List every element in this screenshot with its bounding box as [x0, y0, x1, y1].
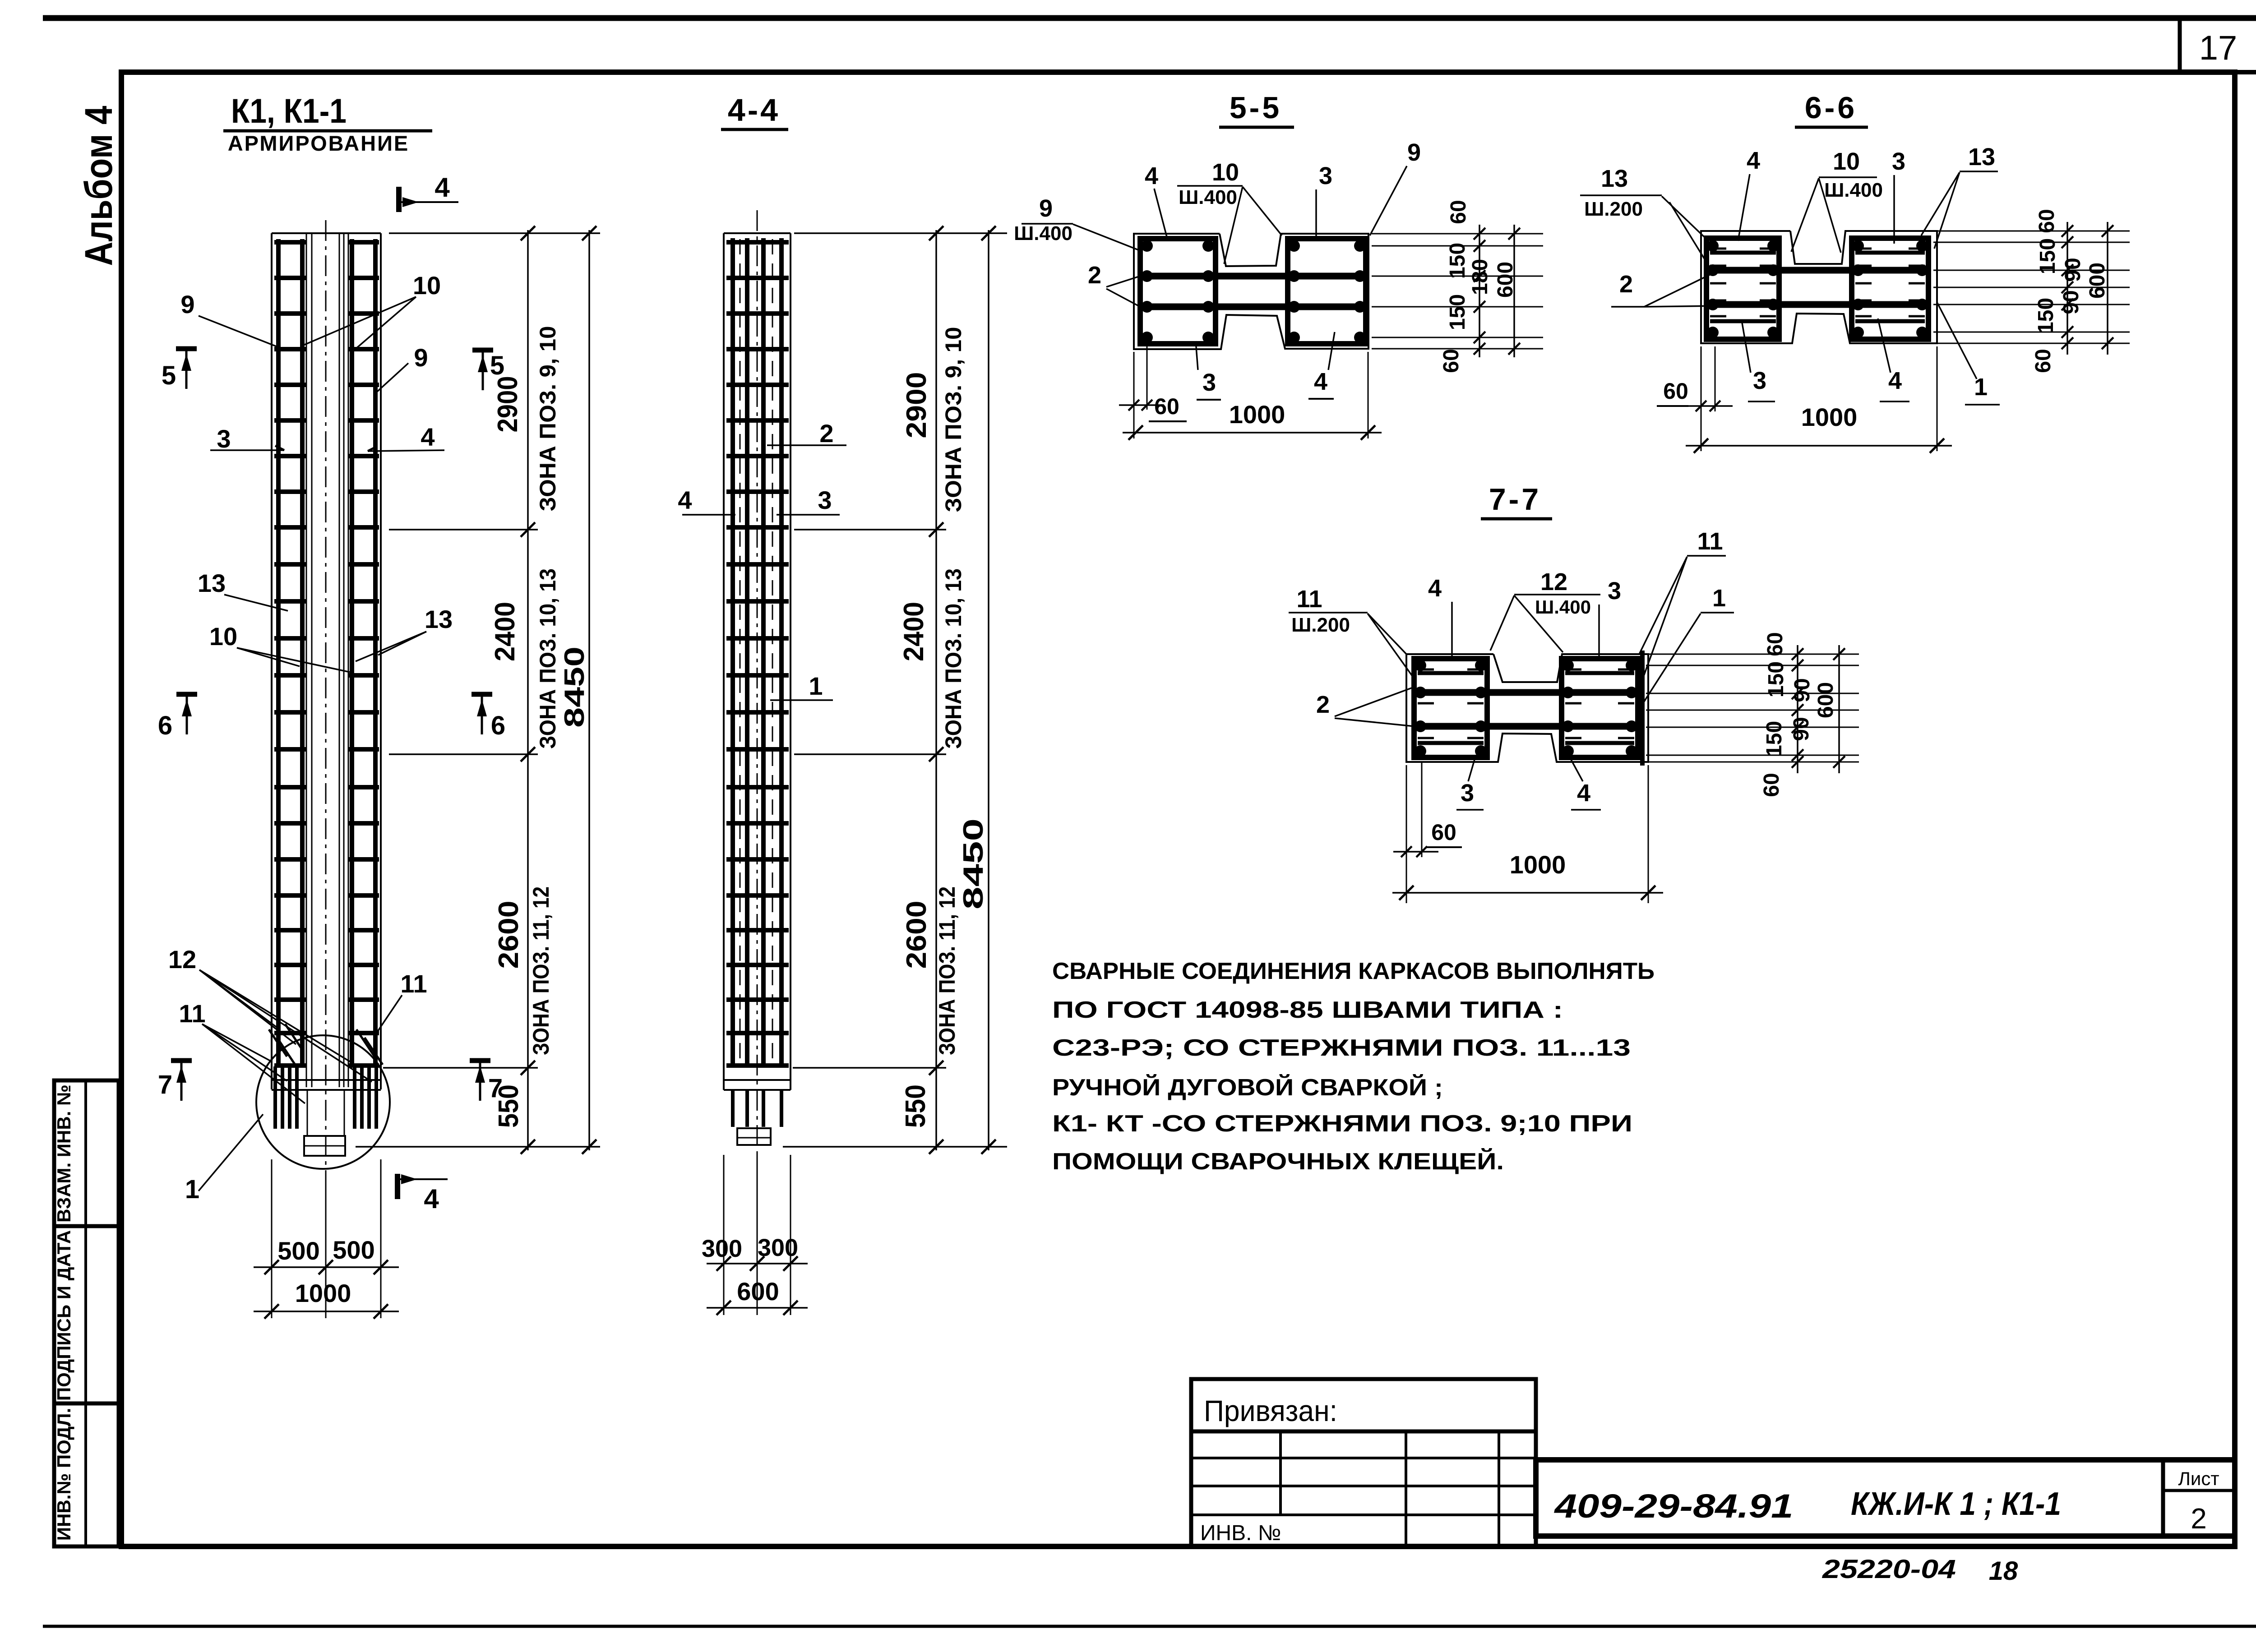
section 5-5 right stirrup: [1288, 239, 1366, 344]
svg-text:5: 5: [490, 351, 504, 380]
zone dimension line 4-4: [935, 230, 937, 1150]
svg-text:18: 18: [1989, 1556, 2018, 1586]
svg-text:1: 1: [1712, 585, 1726, 612]
svg-text:150: 150: [2034, 298, 2058, 334]
zone dimension line K1: [527, 230, 529, 1150]
svg-text:1000: 1000: [1229, 400, 1285, 429]
section marker 6 right: [481, 695, 483, 734]
svg-text:9: 9: [180, 290, 194, 318]
svg-text:12: 12: [168, 945, 196, 974]
section 6-6 dim 1000: [1937, 346, 1938, 451]
svg-text:2900: 2900: [901, 372, 932, 438]
svg-text:9: 9: [414, 343, 428, 372]
svg-text:Ш.400: Ш.400: [1014, 222, 1073, 245]
svg-text:ЗОНА ПОЗ. 10, 13: ЗОНА ПОЗ. 10, 13: [535, 568, 560, 749]
column 4-4 dashed inner bars: [740, 239, 741, 1066]
svg-text:6-6: 6-6: [1805, 91, 1857, 125]
svg-text:3: 3: [1461, 780, 1474, 807]
section 7-7 rebar dots left stirrup: [1415, 660, 1426, 671]
bottom extension lines K1: [271, 1159, 273, 1318]
svg-text:3: 3: [1753, 367, 1766, 394]
svg-text:6: 6: [491, 711, 505, 740]
column K1 elevation outline: [272, 232, 381, 234]
section 6-6 rebar dots right stirrup: [1852, 240, 1864, 252]
svg-text:ИНВ. №: ИНВ. №: [1200, 1521, 1281, 1545]
column 4-4 longitudinal bars: [730, 238, 735, 1066]
section 7-7 left stirrup: [1414, 659, 1487, 757]
section marker 5 right: [482, 351, 484, 390]
section 7-7 dim 60 bottom left: [1406, 765, 1407, 903]
svg-text:60: 60: [2031, 349, 2055, 373]
section marker 6 left: [186, 695, 188, 734]
svg-text:60: 60: [1447, 200, 1470, 224]
svg-text:550: 550: [900, 1084, 931, 1128]
svg-text:ПОМОЩИ СВАРОЧНЫХ КЛЕЩЕЙ.: ПОМОЩИ СВАРОЧНЫХ КЛЕЩЕЙ.: [1052, 1148, 1504, 1175]
svg-text:60: 60: [1763, 632, 1787, 656]
section 6-6 left stirrup: [1706, 238, 1779, 339]
svg-text:2900: 2900: [492, 376, 523, 433]
extension line zone3/550: [383, 1067, 538, 1069]
svg-text:550: 550: [493, 1084, 524, 1128]
weld tick marks in detail zone: [269, 1029, 287, 1057]
extension zone2/3 4-4: [794, 753, 946, 755]
svg-text:90: 90: [2061, 258, 2085, 281]
svg-text:ЗОНА ПОЗ. 9, 10: ЗОНА ПОЗ. 9, 10: [535, 326, 560, 512]
section 5-5 rebar dots right stirrup: [1288, 240, 1300, 252]
section 5-5 bars poz.2: [1140, 273, 1366, 280]
svg-text:90: 90: [2059, 290, 2083, 314]
section 5-5 extension lines right: [1372, 233, 1543, 235]
extension line zone2/3: [389, 753, 538, 755]
svg-text:2: 2: [2191, 1502, 2207, 1535]
extension line column K1 bottom: [356, 1146, 600, 1148]
svg-text:ЗОНА ПОЗ. 10, 13: ЗОНА ПОЗ. 10, 13: [941, 568, 966, 749]
svg-text:ПО ГОСТ 14098-85 ШВАМИ ТИПА :: ПО ГОСТ 14098-85 ШВАМИ ТИПА :: [1052, 997, 1563, 1023]
sheet outer top border line: [43, 15, 2256, 21]
svg-text:10: 10: [413, 271, 441, 300]
svg-text:600: 600: [737, 1277, 779, 1306]
svg-text:4: 4: [678, 486, 692, 514]
svg-text:ЗОНА ПОЗ. 9, 10: ЗОНА ПОЗ. 9, 10: [941, 327, 966, 512]
svg-text:1000: 1000: [1801, 403, 1858, 431]
rebar cage left ladder rungs: [274, 240, 306, 245]
svg-text:6: 6: [158, 711, 172, 740]
column 4-4 protruding bars: [731, 1090, 735, 1127]
column K1 foot plate: [304, 1136, 345, 1156]
svg-text:13: 13: [1601, 165, 1628, 192]
extension zone3/550 4-4: [793, 1067, 946, 1069]
svg-text:Ш.400: Ш.400: [1535, 596, 1591, 618]
svg-text:4: 4: [1747, 147, 1760, 174]
svg-text:РУЧНОЙ ДУГОВОЙ СВАРКОЙ ;: РУЧНОЙ ДУГОВОЙ СВАРКОЙ ;: [1052, 1074, 1443, 1101]
section 6-6 bars poz.2: [1706, 267, 1928, 274]
svg-text:10: 10: [1833, 148, 1860, 175]
svg-text:150: 150: [1762, 721, 1786, 757]
svg-text:4: 4: [424, 1184, 439, 1214]
svg-text:60: 60: [1663, 378, 1688, 404]
svg-text:300: 300: [702, 1235, 742, 1262]
svg-text:2: 2: [1619, 271, 1633, 298]
extension line top K1: [389, 232, 600, 234]
dim line 500/500: [254, 1266, 399, 1268]
section 7-7 dim 600: [1838, 645, 1840, 773]
section 6-6 dim 60 bottom left: [1701, 346, 1702, 451]
section 5-5 dim 600: [1513, 225, 1515, 357]
section 6-6 right stirrup: [1852, 238, 1928, 339]
svg-text:1000: 1000: [295, 1279, 351, 1307]
svg-text:25220-04: 25220-04: [1822, 1555, 1956, 1584]
section 6-6 hook dashes: [1760, 248, 1776, 250]
protruding bars bottom left: [273, 1066, 277, 1129]
svg-text:3: 3: [818, 486, 832, 514]
column 4-4 foot plate: [737, 1128, 771, 1145]
svg-text:13: 13: [1968, 143, 1995, 171]
svg-text:8450: 8450: [958, 818, 989, 909]
svg-text:60: 60: [1760, 773, 1784, 797]
svg-text:11: 11: [400, 969, 427, 998]
svg-text:2: 2: [1088, 262, 1101, 289]
svg-text:СВАРНЫЕ СОЕДИНЕНИЯ КАРКАСОВ: СВАРНЫЕ СОЕДИНЕНИЯ КАРКАСОВ ВЫПОЛНЯТЬ: [1052, 958, 1655, 984]
svg-text:1: 1: [809, 672, 823, 700]
svg-text:7-7: 7-7: [1489, 482, 1541, 517]
svg-text:3: 3: [1319, 162, 1332, 189]
svg-text:Альбом 4: Альбом 4: [77, 106, 120, 266]
svg-text:4: 4: [1577, 780, 1590, 807]
column K1 inner face lines: [306, 233, 307, 1087]
section 5-5 dim 60 bottom left: [1133, 352, 1135, 438]
svg-text:К1, К1-1: К1, К1-1: [231, 92, 347, 130]
svg-text:150: 150: [1446, 243, 1470, 279]
column 4-4 centerline: [757, 210, 758, 1173]
svg-text:ЗОНА ПОЗ. 11, 12: ЗОНА ПОЗ. 11, 12: [934, 886, 960, 1055]
svg-text:4: 4: [1428, 575, 1442, 602]
svg-text:150: 150: [1764, 661, 1788, 697]
svg-text:11: 11: [1296, 586, 1322, 613]
extension line zone1/2: [389, 529, 538, 531]
column 4-4 outline: [724, 232, 791, 234]
svg-text:2: 2: [1316, 691, 1330, 718]
privyazan table: [1191, 1431, 1536, 1546]
svg-text:ВЗАМ. ИНВ. №: ВЗАМ. ИНВ. №: [53, 1084, 74, 1223]
section 7-7 extension lines right: [1646, 654, 1859, 655]
svg-text:Ш.200: Ш.200: [1584, 198, 1643, 220]
svg-text:600: 600: [1493, 262, 1517, 298]
svg-text:2600: 2600: [493, 901, 524, 969]
svg-text:4: 4: [421, 423, 435, 451]
svg-text:К1- КТ -СО СТЕРЖНЯМИ ПОЗ. 9;1: К1- КТ -СО СТЕРЖНЯМИ ПОЗ. 9;10 ПРИ: [1052, 1111, 1632, 1137]
section 6-6 rebar dots left stirrup: [1707, 240, 1719, 252]
extension top 4-4: [794, 232, 1007, 234]
svg-text:Привязан:: Привязан:: [1204, 1394, 1337, 1427]
section marker 5 left: [185, 349, 188, 389]
dim line 300/300: [707, 1263, 808, 1264]
svg-text:600: 600: [1814, 682, 1838, 718]
section 6-6 concrete outline: [1701, 231, 1937, 343]
column 4-4 rungs: [726, 240, 789, 245]
privyazan box: [1191, 1379, 1536, 1431]
protruding bars bottom right: [353, 1066, 356, 1129]
section 7-7 bar poz.1 right: [1640, 651, 1645, 766]
section 6-6 dim chain 60/150/90/90/150/60: [2066, 222, 2068, 355]
svg-text:1: 1: [185, 1175, 199, 1204]
svg-text:С23-РЭ; СО СТЕРЖНЯМИ ПОЗ. 11.: С23-РЭ; СО СТЕРЖНЯМИ ПОЗ. 11...13: [1052, 1035, 1631, 1061]
extension zone1/2 4-4: [794, 529, 946, 531]
svg-text:11: 11: [1697, 528, 1723, 555]
svg-text:ЗОНА ПОЗ. 11, 12: ЗОНА ПОЗ. 11, 12: [528, 886, 554, 1055]
section 7-7 inner bars: [1418, 671, 1484, 675]
section marker 4 top: [396, 187, 402, 212]
svg-text:3: 3: [217, 425, 231, 453]
svg-text:3: 3: [1202, 369, 1216, 396]
section 5-5 concrete outline: [1134, 234, 1368, 349]
column 4-4 bottom band: [724, 1079, 791, 1081]
extension bottom 4-4: [783, 1146, 1007, 1148]
svg-text:3: 3: [1892, 148, 1905, 175]
rebar cage left ladder rails: [276, 239, 281, 1066]
section 7-7 concrete outline: [1406, 654, 1648, 762]
page number box: [2178, 18, 2182, 72]
svg-text:КЖ.И-К 1 ; К1-1: КЖ.И-К 1 ; К1-1: [1851, 1486, 2061, 1522]
svg-text:90: 90: [1790, 678, 1814, 702]
svg-text:Лист: Лист: [2178, 1468, 2219, 1489]
svg-text:4-4: 4-4: [728, 92, 780, 128]
section marker 4 bottom: [395, 1174, 400, 1199]
sheet outer bottom border line: [43, 1625, 2256, 1628]
svg-text:13: 13: [425, 605, 453, 633]
overall dimension line 8450 4-4: [988, 230, 989, 1150]
svg-text:3: 3: [1608, 577, 1621, 605]
list box: [2161, 1460, 2165, 1536]
section marker 7 right: [479, 1061, 481, 1101]
svg-text:2: 2: [819, 419, 833, 448]
svg-text:150: 150: [2036, 238, 2060, 274]
svg-text:Ш.400: Ш.400: [1179, 186, 1237, 208]
section 7-7 bars poz.2: [1414, 689, 1638, 696]
svg-text:ПОДПИСЬ И ДАТА: ПОДПИСЬ И ДАТА: [53, 1230, 74, 1401]
section 6-6 inner bars: [1710, 251, 1776, 255]
section 5-5 left stirrup: [1140, 239, 1216, 344]
svg-text:2600: 2600: [901, 901, 932, 969]
svg-text:2400: 2400: [898, 602, 929, 661]
section 5-5 dim chain 60/150/180/150/60: [1479, 225, 1480, 357]
section 7-7 dim chain 60/150/90/90/150/60: [1797, 645, 1798, 773]
section 7-7 hook dashes: [1418, 669, 1434, 671]
svg-text:90: 90: [1789, 717, 1813, 741]
svg-text:500: 500: [277, 1237, 319, 1265]
svg-text:4: 4: [1314, 368, 1327, 395]
svg-text:10: 10: [1212, 159, 1239, 186]
svg-text:1000: 1000: [1510, 850, 1566, 879]
svg-text:13: 13: [198, 569, 226, 597]
svg-text:2400: 2400: [490, 602, 521, 661]
section 5-5 rebar dots left stirrup: [1141, 240, 1153, 252]
section 7-7 rebar dots right stirrup: [1562, 660, 1574, 671]
svg-text:600: 600: [2085, 263, 2109, 299]
svg-text:Ш.400: Ш.400: [1824, 179, 1883, 201]
svg-text:17: 17: [2199, 29, 2238, 67]
svg-text:5: 5: [162, 361, 176, 390]
svg-text:9: 9: [1039, 195, 1053, 222]
svg-text:409-29-84.91: 409-29-84.91: [1553, 1487, 1793, 1525]
dim line 1000 K1: [254, 1311, 399, 1312]
rebar cage right ladder rungs: [348, 240, 379, 245]
bottom extensions 4-4: [723, 1155, 725, 1315]
svg-text:11: 11: [179, 999, 205, 1028]
svg-text:ИНВ.№ ПОДЛ.: ИНВ.№ ПОДЛ.: [53, 1408, 74, 1541]
svg-text:4: 4: [435, 172, 450, 203]
svg-text:10: 10: [209, 622, 237, 651]
section marker 7 left: [180, 1061, 183, 1101]
svg-text:5-5: 5-5: [1230, 91, 1282, 125]
svg-text:8450: 8450: [559, 646, 590, 728]
rebar cage right ladder rails: [350, 239, 354, 1066]
svg-text:12: 12: [1540, 568, 1567, 595]
section 6-6 extension lines right: [1933, 231, 2130, 232]
svg-text:60: 60: [2035, 209, 2059, 233]
detail circle: [256, 1035, 390, 1169]
svg-text:150: 150: [1446, 294, 1470, 330]
overall dimension line 8450 K1: [588, 230, 590, 1150]
svg-text:4: 4: [1145, 162, 1158, 189]
svg-text:500: 500: [333, 1236, 374, 1264]
section 5-5 dim 1000: [1368, 352, 1369, 438]
svg-text:60: 60: [1439, 349, 1463, 373]
svg-text:Ш.200: Ш.200: [1291, 614, 1350, 636]
svg-text:АРМИРОВАНИЕ: АРМИРОВАНИЕ: [228, 131, 410, 155]
title underline: [223, 129, 432, 133]
column K1 core lines to foot: [307, 1090, 308, 1136]
svg-text:60: 60: [1154, 394, 1179, 419]
svg-text:180: 180: [1468, 259, 1492, 295]
section 7-7 dim 1000: [1648, 765, 1649, 903]
section 7-7 right stirrup: [1562, 659, 1638, 757]
main title bar: [1536, 1460, 2235, 1536]
dim line 600 4-4: [707, 1307, 808, 1309]
vertical title strip boxes: [54, 1080, 119, 1546]
svg-text:7: 7: [158, 1070, 172, 1099]
svg-text:300: 300: [758, 1234, 798, 1261]
column K1 bottom band: [272, 1079, 381, 1081]
column K1 centerline: [325, 220, 327, 1173]
section 6-6 dim 600: [2107, 222, 2108, 355]
svg-text:9: 9: [1407, 139, 1421, 166]
svg-text:60: 60: [1431, 820, 1456, 845]
